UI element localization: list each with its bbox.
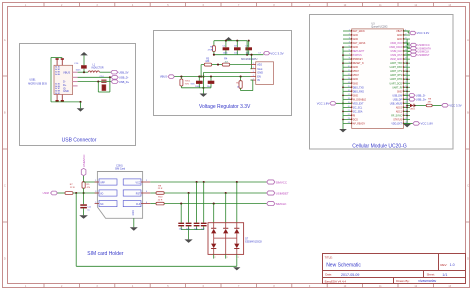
svg-text:SIMVCC: SIMVCC [276,180,287,184]
svg-text:9: 9 [349,62,350,64]
svg-text:13: 13 [348,78,350,80]
svg-text:USB_D-: USB_D- [119,76,129,80]
svg-text:D-: D- [63,80,66,84]
svg-text:GND: GND [353,47,358,49]
svg-text:TVD1: TVD1 [185,80,191,82]
svg-text:UART_RXD: UART_RXD [390,66,403,69]
svg-text:TITLE:: TITLE: [325,256,333,260]
svg-text:Cellular Module UC20-G: Cellular Module UC20-G [352,144,407,150]
svg-text:USIMVCC: USIMVCC [82,155,86,167]
svg-text:REV:: REV: [440,263,447,267]
svg-text:A: A [4,38,6,42]
svg-text:VCC 3.3V: VCC 3.3V [449,104,462,108]
svg-text:3: 3 [349,38,350,40]
svg-text:USB_VBUS: USB_VBUS [390,103,403,105]
svg-text:ADC1: ADC1 [396,110,403,113]
svg-text:TVS: TVS [185,83,190,85]
svg-text:UART_DTR: UART_DTR [390,78,403,81]
svg-text:ANT_MAIN: ANT_MAIN [353,30,365,33]
svg-text:20: 20 [348,106,350,108]
svg-text:GND: GND [353,67,358,69]
svg-text:GND: GND [63,89,69,93]
svg-text:USIM_RST: USIM_RST [390,55,402,57]
svg-text:Sheet:: Sheet: [427,273,436,277]
svg-text:4: 4 [349,42,350,44]
svg-text:W_DISABLE: W_DISABLE [353,98,367,101]
svg-text:VCC 1.8V: VCC 1.8V [317,102,330,106]
svg-text:USB1: USB1 [30,79,37,81]
svg-text:22: 22 [348,114,350,116]
svg-text:14: 14 [348,82,350,84]
svg-text:A9 B9: A9 B9 [55,92,60,95]
svg-text:22 R: 22 R [158,199,163,201]
svg-text:USB_D-: USB_D- [416,94,426,98]
svg-text:2: 2 [349,34,350,36]
svg-text:VCC 1.8V: VCC 1.8V [421,122,434,126]
svg-text:17: 17 [348,94,350,96]
svg-text:GND: GND [257,71,263,75]
svg-text:GND: GND [132,210,135,216]
svg-text:USIM_DATA: USIM_DATA [389,46,402,49]
svg-text:VBAT: VBAT [353,70,359,73]
svg-text:5: 5 [95,202,96,204]
svg-text:USIM: USIM [43,192,49,195]
svg-text:DBG_RXD: DBG_RXD [353,91,364,93]
svg-text:2: 2 [227,257,228,259]
svg-text:DBG_TXD: DBG_TXD [353,87,364,89]
svg-text:USB Connector: USB Connector [62,137,97,143]
svg-text:1: 1 [253,63,254,65]
svg-text:RST: RST [136,193,141,195]
svg-text:VCC 3.3V: VCC 3.3V [270,52,283,56]
svg-text:INDUCTOR: INDUCTOR [92,67,104,69]
svg-text:UART_RI: UART_RI [392,86,402,89]
svg-text:3: 3 [95,191,96,193]
svg-text:I/O: I/O [100,193,103,195]
svg-text:1: 1 [253,75,254,77]
svg-text:GND: GND [353,39,358,41]
svg-text:1: 1 [95,180,96,182]
svg-text:6: 6 [146,202,147,204]
svg-text:vivasmarlav: vivasmarlav [418,279,436,283]
svg-text:MIC29302WU: MIC29302WU [241,57,257,61]
svg-text:GND: GND [397,91,402,93]
svg-text:USB_DP: USB_DP [393,99,403,101]
svg-text:New Schematic: New Schematic [326,262,361,268]
svg-text:1: 1 [253,67,254,69]
svg-text:12: 12 [348,74,350,76]
svg-text:SIMCLK: SIMCLK [276,202,287,206]
svg-text:NC: NC [100,204,104,206]
svg-text:21: 21 [348,110,350,112]
svg-text:SIM card Holder: SIM card Holder [87,251,123,257]
svg-text:ESDMXV155C8: ESDMXV155C8 [245,242,262,244]
svg-text:VPP: VPP [100,182,105,184]
svg-text:USIM_CLK: USIM_CLK [391,51,403,53]
svg-text:VCC 3.3V: VCC 3.3V [417,31,430,35]
svg-text:2: 2 [238,257,239,259]
svg-text:1: 1 [253,71,254,73]
svg-text:STATUS: STATUS [393,118,402,121]
svg-text:22 R: 22 R [70,187,75,189]
svg-text:UART_TXD: UART_TXD [390,62,402,65]
svg-text:VBUS: VBUS [160,75,167,79]
svg-text:USB_DM: USB_DM [392,95,402,97]
svg-text:RF_SYNC: RF_SYNC [391,115,402,117]
svg-text:UART_DCD: UART_DCD [390,82,403,85]
svg-text:D: D [4,257,6,261]
svg-text:DCD: DCD [353,119,358,121]
svg-text:IN: IN [257,78,260,82]
svg-text:1/1: 1/1 [442,273,447,277]
svg-text:USIM_VCC: USIM_VCC [390,43,402,45]
svg-text:2: 2 [146,180,147,182]
svg-text:Voltage Regulator 3.3V: Voltage Regulator 3.3V [199,104,251,110]
svg-text:VBAT: VBAT [396,30,402,33]
svg-text:ADC0: ADC0 [396,106,403,109]
svg-text:PWRKEY: PWRKEY [353,59,363,61]
svg-text:B: B [4,111,6,115]
svg-text:A: A [467,38,469,42]
svg-text:GND: GND [353,79,358,81]
svg-text:24: 24 [348,122,350,124]
svg-text:470R: 470R [208,49,214,51]
svg-text:VCC: VCC [136,182,141,184]
svg-text:SIM Card: SIM Card [115,167,126,170]
svg-text:GND: GND [353,83,358,85]
svg-text:7: 7 [349,54,350,56]
svg-text:VBAT: VBAT [353,74,359,77]
svg-text:ANT_GNSS: ANT_GNSS [353,42,366,45]
svg-text:2017-05-09: 2017-05-09 [341,273,359,277]
svg-text:GND: GND [397,35,402,37]
svg-text:B: B [467,111,469,115]
svg-text:RESET_N: RESET_N [353,63,364,65]
svg-text:C: C [4,184,6,188]
svg-text:USIM_GND: USIM_GND [390,59,402,61]
svg-text:Drawn By:: Drawn By: [396,279,410,283]
svg-text:10: 10 [348,66,350,68]
svg-text:1.0: 1.0 [450,263,455,267]
svg-text:4: 4 [146,191,147,193]
svg-text:ADJ: ADJ [257,63,263,67]
svg-text:UART_CTS: UART_CTS [390,70,403,73]
svg-text:MICRO USB 5E B: MICRO USB 5E B [28,83,47,85]
svg-text:GND: GND [353,35,358,37]
svg-text:USB_5V: USB_5V [119,70,129,74]
svg-text:Quecel UC20G: Quecel UC20G [371,26,387,29]
svg-text:8: 8 [349,58,350,60]
svg-text:D: D [467,257,469,261]
svg-text:UART_RTS: UART_RTS [390,74,403,77]
svg-text:A4 B4: A4 B4 [55,73,60,76]
svg-text:15: 15 [348,86,350,88]
svg-text:I2C_SCL: I2C_SCL [353,107,363,109]
svg-text:USIMRST: USIMRST [417,53,429,57]
svg-text:NETLIGHT: NETLIGHT [353,51,365,53]
svg-text:16: 16 [348,90,350,92]
svg-text:CLK: CLK [136,204,141,206]
svg-text:VDD_EXT: VDD_EXT [391,123,402,125]
svg-text:1: 1 [349,30,350,32]
svg-text:I2C_SDA: I2C_SDA [353,110,363,113]
svg-text:6: 6 [349,50,350,52]
svg-text:EasyEDA V4.4.4: EasyEDA V4.4.4 [325,279,347,283]
svg-text:22 R: 22 R [158,188,163,190]
svg-text:GND: GND [397,39,402,41]
svg-text:Date:: Date: [325,273,332,277]
svg-text:AP_READY: AP_READY [353,122,366,125]
svg-text:23: 23 [348,118,350,120]
svg-text:C: C [467,184,469,188]
svg-text:RI: RI [353,115,356,117]
svg-text:USB_D+: USB_D+ [119,80,130,84]
svg-text:18: 18 [348,98,350,100]
svg-text:5: 5 [349,46,350,48]
svg-text:11: 11 [348,70,350,72]
svg-text:USIMDET: USIMDET [276,191,289,195]
svg-text:100n: 100n [76,70,82,72]
svg-text:VDD_EXT: VDD_EXT [353,103,364,105]
svg-text:Vout: Vout [257,67,262,71]
svg-text:2: 2 [215,257,216,259]
svg-text:GND: GND [353,95,358,97]
svg-text:STATUS: STATUS [353,54,362,57]
svg-text:LED1: LED1 [410,109,416,111]
svg-text:EN: EN [257,75,261,79]
svg-text:USB_D+: USB_D+ [416,98,427,102]
svg-text:VBUS: VBUS [63,71,70,75]
